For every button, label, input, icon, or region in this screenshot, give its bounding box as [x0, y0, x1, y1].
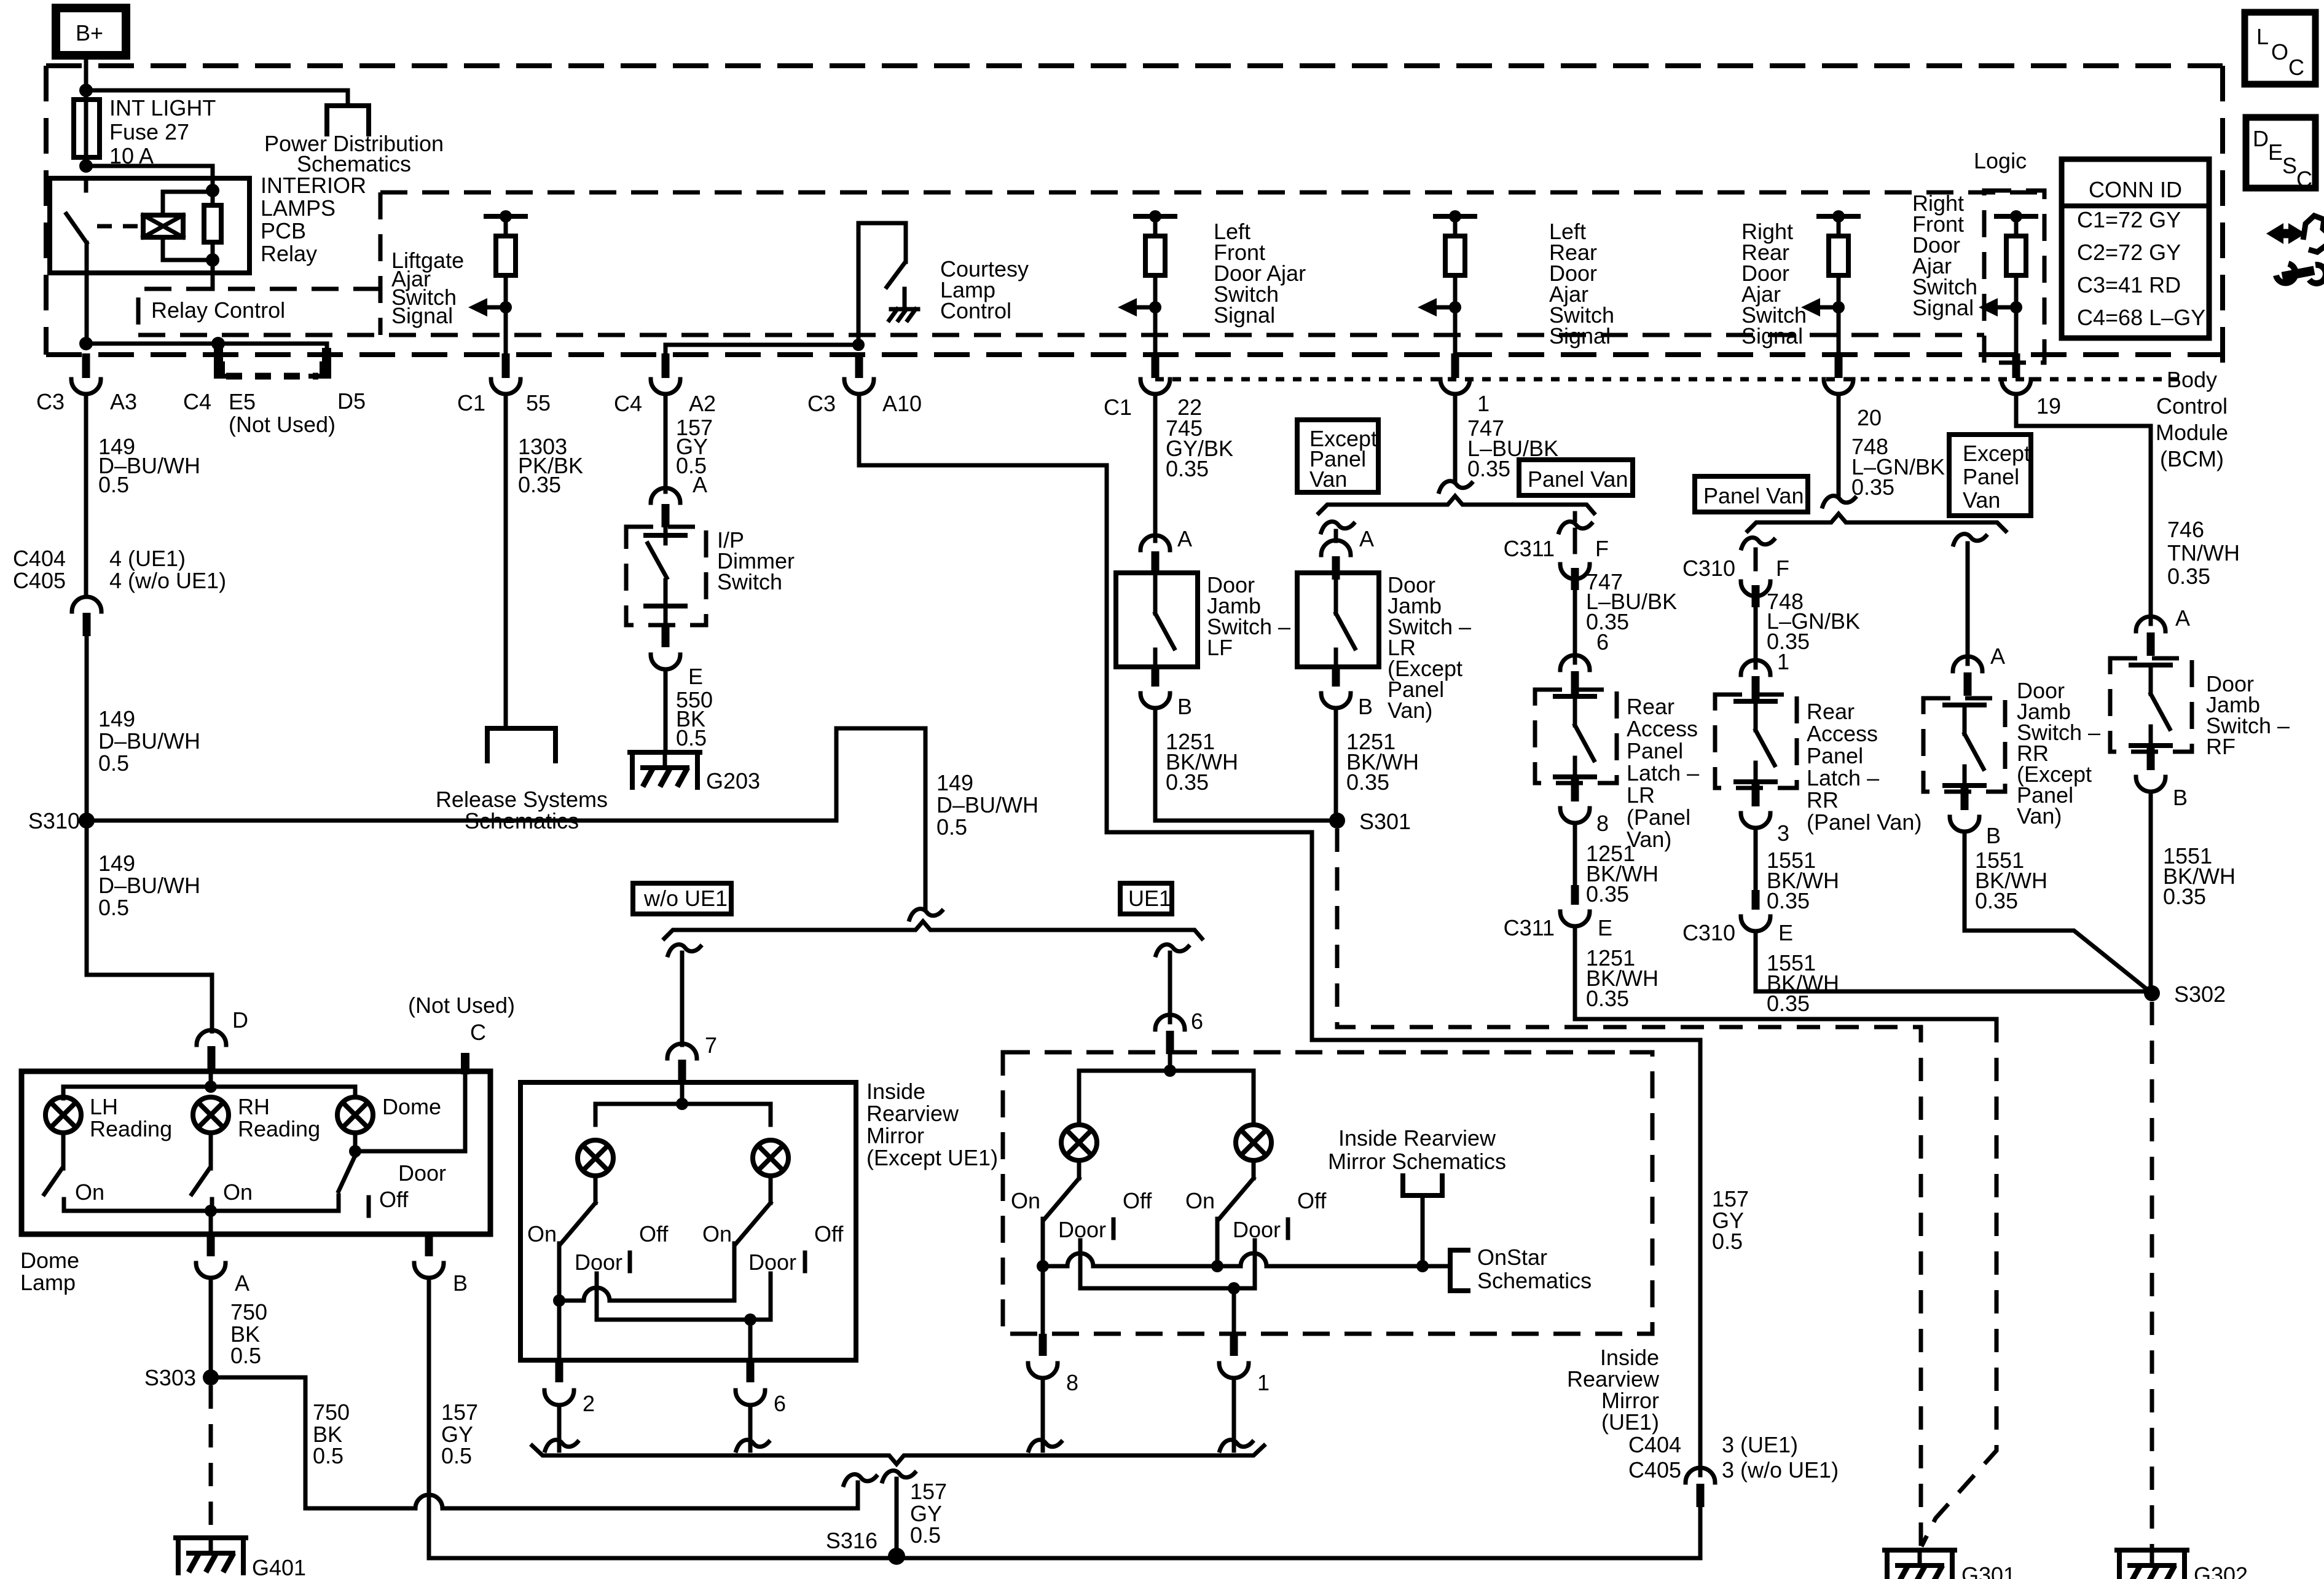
svg-text:C1: C1	[1104, 395, 1132, 420]
svg-text:Mirror: Mirror	[866, 1123, 924, 1148]
label Door Jamb Switch - LF	[1207, 572, 1290, 660]
node: LR signal junction	[1449, 301, 1461, 313]
connector pin 2	[544, 1360, 574, 1405]
svg-text:2: 2	[583, 1391, 595, 1416]
label 747 L-BU/BK 0.35	[1467, 415, 1558, 481]
svg-text:0.35: 0.35	[1851, 474, 1894, 500]
svg-text:0.35: 0.35	[1975, 888, 2018, 913]
label 1551 BK/WH 0.35 (RR B)	[1975, 848, 2047, 913]
svg-text:(Except UE1): (Except UE1)	[866, 1145, 998, 1170]
svg-text:D5: D5	[337, 388, 366, 414]
UE1 right switch wire	[1252, 1160, 1256, 1178]
outer dashed box bottom edge	[46, 352, 2223, 357]
harness break above 748 brace	[1823, 496, 1855, 506]
wire 1551 BK/WH RR-B to S302	[1965, 832, 2152, 993]
svg-text:E: E	[1778, 920, 1793, 945]
label Door Jamb Switch - LR (Except Panel Van)	[1388, 572, 1471, 723]
svg-text:On: On	[527, 1221, 557, 1246]
RF switch blade	[2151, 694, 2170, 729]
svg-text:Rear: Rear	[1627, 694, 1674, 719]
label Off (UE1 right)	[1297, 1188, 1327, 1213]
svg-text:7: 7	[705, 1033, 717, 1058]
wire pin 1 to brace	[1220, 1378, 1252, 1451]
label 3	[1777, 821, 1789, 846]
wire to power distribution pointer	[86, 90, 348, 106]
svg-text:C2=72 GY: C2=72 GY	[2077, 240, 2181, 265]
svg-text:0.5: 0.5	[313, 1443, 343, 1468]
boxed label Except Panel Van (right)	[1949, 435, 2031, 516]
label On (left)	[527, 1221, 557, 1246]
label 19	[2036, 393, 2061, 419]
svg-text:Latch –: Latch –	[1807, 765, 1879, 790]
svg-text:S303: S303	[144, 1365, 196, 1390]
label 149 D-BU/WH 0.5 (mid)	[98, 706, 200, 776]
svg-text:Rearview: Rearview	[866, 1101, 959, 1126]
label C3 / A10	[807, 391, 922, 416]
UE1 left Off contact	[1112, 1219, 1116, 1238]
label G203	[706, 768, 760, 793]
connector B below LF	[1140, 667, 1170, 708]
wire 750 BK from pin A to S303	[209, 1278, 213, 1377]
svg-text:750: 750	[230, 1299, 267, 1325]
switch signal dashed box left edge	[379, 192, 383, 335]
svg-text:A: A	[1177, 526, 1192, 551]
connector pin 3 below latch RR	[1741, 813, 1770, 828]
label 1551 BK/WH 0.35 (C310 E)	[1767, 950, 1839, 1016]
inner dashed bottom edge (relay control / switch signal row)	[138, 333, 1984, 337]
svg-text:B: B	[1986, 823, 2001, 848]
label B (LF)	[1177, 694, 1192, 719]
relay coil (box with X)	[143, 215, 183, 237]
svg-text:A3: A3	[110, 389, 137, 414]
wire 1251 BK/WH to ground run	[1575, 926, 1996, 1019]
label 1 (UE1)	[1257, 1370, 1270, 1395]
svg-text:A: A	[1990, 644, 2005, 669]
svg-text:Fuse 27: Fuse 27	[109, 119, 189, 144]
LF switch contact wire	[1153, 575, 1158, 613]
svg-text:B: B	[2173, 785, 2188, 810]
label OnStar Schematics	[1477, 1245, 1592, 1293]
svg-text:0.5: 0.5	[230, 1343, 261, 1368]
arrow: liftgate ajar switch signal	[468, 298, 506, 317]
connector E below dimmer	[651, 655, 680, 669]
lamp Dome	[337, 1097, 373, 1133]
svg-text:On: On	[702, 1221, 732, 1246]
label Left Front Door Ajar Switch Signal	[1214, 219, 1306, 328]
wire 157 GY dimmer feed link	[665, 345, 858, 355]
LH switch On contact	[62, 1199, 66, 1211]
label On (LH)	[75, 1179, 104, 1205]
svg-text:On: On	[75, 1179, 104, 1205]
label 1251 BK/WH 0.35 (LR)	[1346, 729, 1419, 795]
svg-text:C3: C3	[807, 391, 836, 416]
right switch pole wire	[732, 1243, 737, 1301]
RR switch output stub	[1961, 786, 1969, 810]
svg-text:0.35: 0.35	[518, 472, 561, 497]
LF signal terminal T-bar	[1136, 210, 1175, 222]
label Off (left)	[639, 1221, 669, 1246]
label B (RR)	[1986, 823, 2001, 848]
svg-text:Signal: Signal	[391, 303, 453, 328]
label 149 D-BU/WH 0.5 (upper)	[98, 434, 200, 497]
dimmer switch bottom contact	[646, 580, 685, 624]
connector pin 7	[667, 1044, 697, 1083]
right switch blade	[736, 1203, 771, 1243]
label RH Reading	[238, 1094, 320, 1141]
svg-text:Switch: Switch	[717, 569, 782, 594]
RR switch bottom contact	[1945, 766, 1984, 786]
label Door (left)	[575, 1250, 622, 1275]
label 748 L-GN/BK 0.35 1	[1767, 589, 1860, 674]
connector C404/C405 inline (bottom)	[1686, 1468, 1715, 1507]
dome lamp box	[22, 1071, 490, 1234]
left Off contact	[628, 1253, 632, 1271]
svg-text:C1: C1	[457, 390, 485, 415]
arrow: LF door ajar switch signal	[1118, 298, 1155, 317]
svg-text:D–BU/WH: D–BU/WH	[98, 873, 200, 898]
connector B below RF	[2136, 777, 2165, 792]
svg-text:LR: LR	[1627, 782, 1655, 808]
label Body Control Module (BCM)	[2156, 367, 2228, 471]
wire 149 D-BU/WH from A3	[84, 394, 88, 597]
LF switch lower wire	[1153, 650, 1158, 667]
wire relay switch to bus	[85, 243, 89, 344]
svg-text:E: E	[1598, 915, 1612, 940]
connector C404/C405 inline	[72, 597, 101, 636]
label B (LR)	[1358, 694, 1373, 719]
label 8 (UE1)	[1066, 1370, 1078, 1395]
svg-text:CONN ID: CONN ID	[2089, 177, 2182, 202]
label INT LIGHT Fuse 27 10 A	[109, 95, 216, 168]
svg-text:20: 20	[1857, 405, 1882, 430]
svg-text:0.35: 0.35	[2163, 884, 2206, 909]
svg-text:Signal: Signal	[1741, 323, 1803, 348]
label Door (UE1 right)	[1233, 1217, 1281, 1242]
svg-text:8: 8	[1596, 811, 1609, 836]
courtesy control ground	[889, 289, 918, 320]
label On (right)	[702, 1221, 732, 1246]
UE1 mirror feed rail	[1079, 1052, 1254, 1125]
svg-text:Off: Off	[1123, 1188, 1152, 1213]
latch LR output stub	[1571, 777, 1579, 801]
connector pin A of dome lamp	[196, 1234, 226, 1278]
wire 748 brace to RR switch	[1953, 534, 1986, 664]
svg-text:O: O	[2271, 39, 2288, 65]
svg-text:C310: C310	[1682, 556, 1735, 581]
mirror UE1 dashed box	[1003, 1052, 1652, 1334]
latch RR bottom contact	[1736, 763, 1775, 782]
connector C311 pin E inline	[1560, 885, 1590, 926]
svg-text:0.5: 0.5	[98, 895, 129, 920]
connector C3 pin A3	[71, 353, 101, 394]
Logic dashed box	[1984, 191, 2044, 363]
wire resistor to connector	[1153, 275, 1158, 355]
svg-text:Mirror Schematics: Mirror Schematics	[1328, 1149, 1506, 1174]
connector A into dimmer switch	[651, 488, 680, 527]
label C311 / F	[1504, 536, 1609, 561]
harness curl pin 7 branch	[668, 945, 701, 955]
svg-text:Van): Van)	[1388, 698, 1432, 723]
svg-text:TN/WH: TN/WH	[2167, 540, 2240, 565]
svg-text:4 (UE1): 4 (UE1)	[109, 546, 186, 571]
connector pin 20	[1824, 353, 1853, 394]
label B (RF)	[2173, 785, 2188, 810]
label B	[453, 1270, 468, 1296]
RF switch top contact	[2131, 665, 2170, 694]
svg-text:1: 1	[1257, 1370, 1270, 1395]
svg-text:Dome: Dome	[20, 1248, 79, 1273]
wire 745 GY/BK	[1153, 394, 1158, 541]
ground G203	[630, 752, 700, 787]
svg-text:Panel: Panel	[1807, 743, 1863, 768]
node: junction dot below fuse top	[79, 84, 93, 97]
LF switch blade	[1155, 613, 1174, 648]
label D	[232, 1007, 248, 1033]
label 747 L-BU/BK 0.35 6	[1586, 569, 1677, 655]
connector D5 stub (not used)	[322, 348, 331, 379]
label 1251 BK/WH 0.35 (latch LR)	[1586, 841, 1659, 907]
dimmer switch top contact	[646, 527, 685, 543]
label Door (dome)	[398, 1160, 446, 1186]
label Off (dome)	[379, 1187, 409, 1212]
label Logic	[1974, 148, 2027, 173]
svg-text:Relay Control: Relay Control	[151, 297, 285, 323]
wire 748 to latch RR	[1754, 606, 1758, 667]
dome lamp internal feed rail	[63, 1071, 355, 1098]
latch LR bottom contact	[1555, 758, 1595, 777]
wire pin 8 drop	[1041, 1266, 1045, 1334]
wire 1551 BK/WH RF-B to S302	[2149, 792, 2153, 993]
svg-text:C310: C310	[1682, 920, 1735, 945]
DESC box	[2246, 117, 2315, 192]
wire pin 2 to brace	[545, 1405, 578, 1451]
UE1 left switch blade	[1045, 1178, 1079, 1219]
svg-text:A: A	[1359, 526, 1374, 551]
connector C310 pin F	[1741, 549, 1770, 607]
UE1 rail1 with hops	[1043, 1253, 1450, 1266]
label On (RH)	[223, 1179, 253, 1205]
label C404 / C405	[13, 546, 66, 593]
svg-text:C4: C4	[614, 391, 642, 416]
svg-text:Rear: Rear	[1807, 699, 1855, 724]
svg-text:A2: A2	[689, 391, 716, 416]
node: bus junction dot at E5	[211, 337, 225, 350]
svg-text:B: B	[1177, 694, 1192, 719]
UE1 right pole wire	[1215, 1219, 1220, 1266]
svg-text:149: 149	[98, 706, 135, 731]
resistor (RF door ajar switch signal)	[2006, 216, 2026, 275]
rear access panel latch LR dashed box	[1535, 690, 1617, 783]
svg-text:Door: Door	[748, 1250, 796, 1275]
node: liftgate signal junction	[500, 301, 512, 313]
svg-text:RF: RF	[2206, 734, 2236, 759]
B+ power symbol	[56, 8, 126, 55]
svg-text:w/o UE1: w/o UE1	[643, 886, 728, 911]
svg-text:0.35: 0.35	[1166, 770, 1209, 795]
splice S301	[1329, 813, 1345, 829]
node: courtesy junction	[852, 339, 865, 351]
svg-text:B+: B+	[76, 20, 103, 45]
svg-text:0.5: 0.5	[910, 1522, 941, 1548]
wire S310 to dome lamp	[87, 821, 212, 1031]
label G301	[1961, 1562, 2016, 1579]
svg-text:19: 19	[2036, 393, 2061, 419]
dashed wire S303 to G401	[209, 1385, 213, 1537]
wire fuse to relay coil branch	[86, 166, 213, 205]
wire relay control output	[211, 260, 215, 289]
node: junction dot below fuse	[79, 159, 93, 173]
arrow: LR door ajar switch signal	[1418, 298, 1455, 317]
label 6 (w/o UE1)	[774, 1391, 786, 1416]
label Dome	[382, 1094, 441, 1119]
lamp right (UE1 mirror)	[1236, 1125, 1271, 1160]
svg-text:0.35: 0.35	[2167, 564, 2210, 589]
svg-text:Control: Control	[2156, 393, 2228, 419]
label Relay Control	[151, 297, 285, 323]
CONN ID table	[2062, 159, 2209, 338]
wire 1551 BK/WH C310-E to S302	[1756, 931, 2152, 991]
svg-text:A: A	[235, 1270, 249, 1296]
svg-text:Door: Door	[398, 1160, 446, 1186]
svg-text:0.5: 0.5	[98, 750, 129, 776]
svg-text:Control: Control	[940, 298, 1011, 323]
label S316	[826, 1528, 877, 1553]
svg-text:Van: Van	[1309, 467, 1347, 492]
svg-text:(Panel Van): (Panel Van)	[1807, 809, 1922, 835]
label 750 BK 0.5 (pin A)	[230, 1299, 267, 1368]
LR switch contact wire	[1334, 575, 1338, 613]
RH switch blade	[192, 1168, 210, 1194]
left switch pole wire	[557, 1243, 562, 1301]
ground G301	[1885, 1550, 1955, 1579]
wire 157 GY from A10 down and right	[859, 394, 1700, 1040]
dome lamp bottom wire	[353, 1133, 358, 1156]
svg-text:G302: G302	[2194, 1562, 2248, 1579]
svg-text:C: C	[2288, 55, 2304, 80]
svg-text:Access: Access	[1807, 721, 1878, 746]
svg-text:(Panel: (Panel	[1627, 805, 1690, 830]
wire 157 GY from pin B down	[429, 1278, 1700, 1558]
right lamp switch wire	[769, 1176, 773, 1203]
rear access panel latch RR dashed box	[1715, 695, 1797, 788]
outer dashed box top edge	[46, 63, 2223, 68]
svg-text:Off: Off	[639, 1221, 669, 1246]
label INTERIOR LAMPS PCB Relay	[261, 173, 366, 266]
label Inside Rearview Mirror (UE1)	[1567, 1345, 1660, 1435]
wire coil loop left branch	[163, 192, 213, 260]
I/P dimmer switch dashed box	[626, 527, 706, 625]
LH switch blade	[44, 1168, 62, 1194]
relay switch contact	[84, 178, 88, 191]
label C311 / E	[1504, 915, 1612, 940]
label Inside Rearview Mirror (Except UE1)	[866, 1079, 998, 1170]
wire C404 to bottom run	[1698, 1507, 1703, 1558]
label I/P Dimmer Switch	[717, 527, 795, 594]
svg-text:Inside Rearview: Inside Rearview	[1338, 1125, 1496, 1151]
node: feed rail junction	[205, 1081, 217, 1093]
latch RR blade	[1756, 730, 1775, 765]
connector C1 pin 22	[1140, 353, 1170, 394]
label Right Front Door Ajar Switch Signal	[1912, 191, 1977, 320]
wire 1303 PK/BK	[504, 394, 508, 728]
RF signal terminal T-bar	[1996, 210, 2036, 222]
svg-text:PCB: PCB	[261, 218, 306, 243]
door jamb switch LF box	[1116, 573, 1198, 667]
connector pin D into dome lamp	[197, 1030, 226, 1069]
svg-text:Signal: Signal	[1549, 323, 1611, 348]
svg-text:LH: LH	[90, 1094, 118, 1119]
svg-text:3: 3	[1777, 821, 1789, 846]
node: mirror rail junction	[676, 1098, 688, 1110]
connector A into LR switch	[1321, 531, 1351, 580]
wire B+ to fuse	[84, 55, 88, 101]
wire pin 6 drop	[748, 1320, 753, 1360]
dome switch blade	[339, 1156, 355, 1191]
UE1 rail2 (door link)	[1080, 1259, 1255, 1288]
svg-text:0.35: 0.35	[1346, 770, 1389, 795]
UE1 right Door contact	[1253, 1240, 1257, 1259]
svg-text:Logic: Logic	[1974, 148, 2027, 173]
svg-text:(BCM): (BCM)	[2160, 446, 2224, 471]
label Rear Access Panel Latch - LR (Panel Van)	[1627, 694, 1699, 852]
label C310 / F	[1682, 556, 1789, 581]
splice S302	[2144, 985, 2160, 1001]
label S303	[144, 1365, 196, 1390]
svg-text:C311: C311	[1504, 536, 1555, 561]
svg-text:INTERIOR: INTERIOR	[261, 173, 366, 198]
label Door Jamb Switch - RF	[2206, 671, 2290, 759]
boxed label UE1	[1120, 883, 1172, 914]
label 8	[1596, 811, 1609, 836]
node: bottom rail junction at pin A	[205, 1205, 217, 1217]
label C310 / E	[1682, 920, 1793, 945]
latch LR top contact	[1555, 696, 1595, 725]
svg-text:C404: C404	[13, 546, 66, 571]
svg-text:55: 55	[526, 390, 551, 415]
svg-text:0.5: 0.5	[441, 1443, 472, 1468]
boxed label Panel Van	[1519, 460, 1633, 495]
liftgate terminal T-bar	[486, 210, 525, 222]
UE1 right switch blade	[1219, 1178, 1254, 1219]
svg-text:On: On	[1185, 1188, 1215, 1213]
dimmer switch output stub	[662, 625, 670, 647]
label 149 D-BU/WH 0.5 (lower)	[98, 851, 200, 920]
RR switch blade	[1965, 734, 1984, 769]
svg-text:157: 157	[910, 1479, 947, 1504]
wire 157 GY 0.5 to dimmer	[664, 394, 668, 492]
svg-text:0.35: 0.35	[1467, 456, 1510, 481]
splice S316	[888, 1548, 905, 1565]
wire to mirror pin 7	[680, 953, 685, 1045]
svg-text:D: D	[2253, 126, 2269, 151]
dashed (Not Used) connector outline E5-D5	[222, 364, 322, 376]
node: RR signal junction	[1832, 301, 1845, 313]
svg-text:Signal: Signal	[1214, 302, 1275, 328]
resistor (liftgate ajar switch signal)	[496, 216, 516, 275]
svg-text:LF: LF	[1207, 635, 1233, 660]
wire 149 D-BU/WH to S310	[85, 636, 89, 821]
connector pin 6 into latch LR	[1560, 655, 1590, 695]
resistor (relay internal)	[204, 191, 221, 260]
arrow: RR door ajar switch signal	[1801, 298, 1839, 317]
harness curl C310 branch	[1741, 538, 1774, 548]
label On (UE1 right)	[1185, 1188, 1215, 1213]
svg-text:S310: S310	[28, 808, 80, 833]
svg-text:D–BU/WH: D–BU/WH	[98, 728, 200, 754]
door jamb switch RR dashed box	[1923, 698, 2005, 792]
svg-text:0.35: 0.35	[1767, 991, 1810, 1016]
label 746 TN/WH 0.35	[2167, 517, 2240, 589]
